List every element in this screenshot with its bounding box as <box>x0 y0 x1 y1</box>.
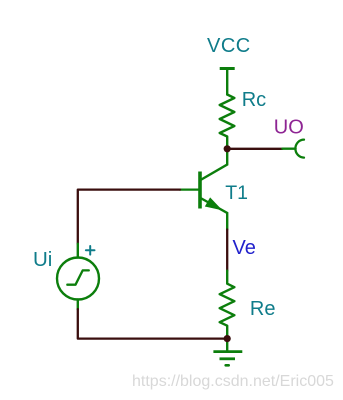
svg-text:Rc: Rc <box>242 89 266 111</box>
resistor Rc <box>220 95 235 149</box>
svg-text:T1: T1 <box>225 182 248 204</box>
svg-text:VCC: VCC <box>207 35 251 57</box>
resistor Re <box>220 271 235 339</box>
ground <box>213 339 242 366</box>
output terminal UO <box>282 140 304 158</box>
wire source to ground node <box>78 309 225 338</box>
junction node collector <box>224 145 231 152</box>
wire base <box>180 188 198 190</box>
svg-text:Re: Re <box>250 298 276 320</box>
svg-text:UO: UO <box>274 117 304 139</box>
power symbol VCC bar <box>220 69 235 95</box>
junction node emitter-ground <box>224 335 231 342</box>
svg-text:Ve: Ve <box>233 237 256 259</box>
source Ui <box>57 244 99 309</box>
svg-text:Ui: Ui <box>33 248 52 271</box>
svg-text:https://blog.csdn.net/Eric005: https://blog.csdn.net/Eric005 <box>132 373 334 390</box>
wire emitter <box>226 230 228 271</box>
transistor T1 <box>200 149 227 230</box>
plus sign <box>86 246 95 255</box>
wire collector to output <box>227 148 282 150</box>
